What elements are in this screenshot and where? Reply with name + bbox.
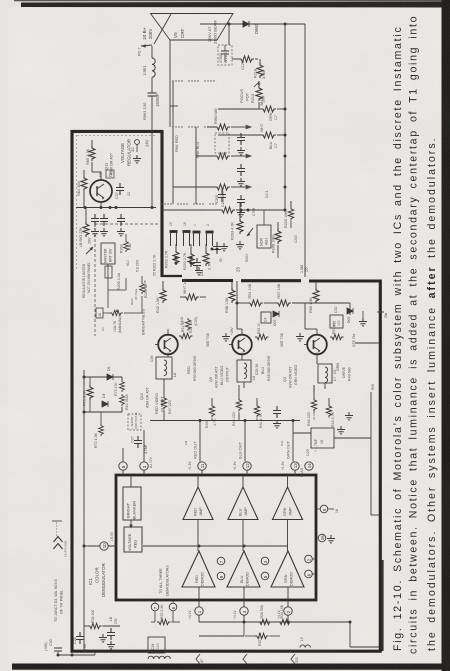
wire pin23 to BLU (237, 303, 242, 329)
tick on rail (377, 312, 388, 318)
T1 winding bar 1 (170, 232, 178, 247)
pin 6 below circle (169, 600, 177, 611)
pin 14 BIAS (300, 462, 313, 477)
resistor R50 680 drive (182, 337, 184, 339)
wire row2 right (350, 303, 363, 318)
CRT neck tick (170, 105, 178, 107)
node reg bus 5 (151, 206, 154, 209)
node left col b (83, 411, 86, 414)
video bus wire (150, 420, 300, 422)
node reg bus 1 (84, 206, 87, 209)
dotted leader (52, 521, 62, 536)
CRT grid dotted row 2 (172, 126, 214, 127)
wire PNK RED vertical (172, 81, 174, 204)
node t1 d (190, 262, 193, 265)
capacitor C961 (148, 93, 157, 131)
capacitor C28 (68, 632, 87, 653)
coil L961 (152, 58, 155, 77)
node left col a (83, 376, 86, 379)
ground drive 1 (222, 333, 230, 341)
ground c28 (99, 634, 107, 642)
wire BLU amp out (242, 520, 244, 552)
box C31 (261, 312, 271, 323)
pin 2 circle demod (305, 555, 316, 563)
capacitor mid (273, 406, 281, 428)
grid row R960 (207, 108, 245, 130)
wire right rail drop (371, 392, 379, 515)
transistor stubs BLU (229, 303, 242, 345)
focus pot arrow (254, 82, 261, 87)
resistor R51 10K (168, 321, 193, 339)
wire branch bottom (84, 411, 122, 413)
wire PNK BLU vertical (195, 127, 197, 156)
label 47000 WVDC (219, 52, 228, 63)
right scan bar (442, 0, 450, 671)
bottom scan bar (12, 664, 450, 670)
resistor R44 4.7K (254, 398, 263, 428)
T1 winding bar 2 (183, 232, 191, 247)
wire r57 right (292, 302, 350, 304)
coil box L8 (156, 353, 177, 385)
wire RED demod out (198, 587, 200, 600)
cap pair 3 (237, 195, 245, 217)
wire GRN amp out (287, 520, 289, 552)
CRT anode wire (200, 23, 243, 25)
capacitor reg 2 (100, 214, 108, 236)
node kine bottom b (247, 209, 250, 212)
pin 11 stub (201, 470, 203, 475)
CRT grid dotted row 1 (172, 80, 214, 81)
node kine top (284, 23, 287, 26)
resistor R203 4.7K (231, 213, 244, 240)
T1 pin labels (169, 222, 210, 226)
wire r38 row (84, 610, 120, 629)
resistor R218 3.9M (254, 59, 267, 79)
transistor Q11 circle (90, 180, 112, 202)
resistor R202 2.7K a (165, 244, 180, 268)
transistor stubs RED (155, 329, 168, 345)
pin 1 bottom circle (195, 600, 203, 622)
capacitor C27 (131, 436, 149, 454)
top thin scan line (14, 0, 450, 1)
diode D81 box (106, 170, 114, 178)
node reg bus 3 (109, 206, 112, 209)
coil box L7 (317, 353, 337, 389)
wire RED amp out (197, 520, 199, 552)
resistor R219 3K (140, 276, 148, 298)
kine row bottom (162, 207, 285, 213)
caps C201 (193, 258, 204, 276)
node row4 right (284, 186, 287, 189)
capacitor reg 3 (117, 214, 125, 236)
grid row wire G2 (218, 108, 261, 110)
resistor R60 1.5K (309, 281, 319, 313)
resistor R57 10K (276, 283, 291, 306)
resistor R45 220 (232, 385, 242, 426)
pin 15 right edge (316, 534, 335, 543)
node luma a (198, 545, 201, 548)
labels Q9 column (209, 366, 230, 388)
resistor R64 15K (76, 170, 87, 196)
grid row wire blu (218, 134, 261, 136)
CRT neck left (169, 40, 171, 127)
node t1 e (211, 248, 214, 251)
wire blanker input (130, 475, 132, 487)
pin 3 circle demod (261, 557, 269, 565)
wire focus row (258, 102, 260, 109)
module boundary left edge (70, 130, 73, 653)
resistor R49 680 (330, 323, 344, 340)
node t1 c (190, 257, 193, 260)
node t1 a (175, 257, 178, 260)
diode D960 (243, 21, 249, 27)
amplifier RED AMP triangle (183, 487, 213, 520)
wire c28 bottom (83, 626, 85, 651)
connector chevron c (291, 654, 299, 664)
box MASTER SWITCH (101, 243, 115, 264)
wire grn out drop (313, 385, 315, 392)
coil bottom left (148, 656, 170, 659)
pin 13 circle (291, 462, 299, 470)
amplifier BLU AMP triangle (228, 487, 258, 520)
instamatic dashed boundary vertical (94, 224, 96, 336)
pin 11 circle (198, 462, 206, 470)
wire GRN OUT (292, 421, 294, 462)
node anode junction (228, 23, 231, 26)
wire pin23 row (237, 302, 248, 304)
pin 10 circle (100, 542, 108, 550)
instamatic wires (108, 264, 142, 313)
wire branch top (84, 376, 122, 378)
node demod row b (287, 621, 290, 624)
node video bus blu (244, 419, 247, 422)
resistor R43 4.7K (326, 398, 335, 427)
resistor R48 680 (255, 323, 269, 340)
chroma wires (240, 203, 291, 258)
wire grn collector to rail (355, 342, 380, 344)
wire RED amp in (197, 475, 199, 487)
cap pair 2 (237, 164, 245, 186)
wire BLU amp in (242, 475, 244, 487)
resistor R41 (180, 278, 206, 300)
demodulator RED DEMOD triangle (182, 551, 215, 587)
dashed short-here box (128, 414, 141, 430)
node video bus grn (292, 419, 295, 422)
labels C100 C33 (180, 317, 198, 326)
resistor R54 10K (248, 283, 263, 306)
resistor R42 1.5K (156, 281, 166, 313)
grid row 2 wire (196, 153, 245, 159)
top scan bar (21, 2, 450, 8)
capacitor near t1 (213, 242, 228, 254)
IC1 color demodulator box (116, 475, 316, 600)
demodulator GRN DEMOD triangle (271, 551, 304, 587)
module boundary upper-right vertical (160, 130, 163, 277)
box NOR ADJ (257, 225, 271, 248)
ground chroma 1 (236, 241, 244, 249)
labels GRN drive (336, 362, 346, 378)
wire r54 r57 (264, 302, 276, 304)
connector chevron a (196, 654, 204, 664)
T1 winding bar 4 (206, 232, 214, 246)
terminal 10 (130, 140, 139, 152)
transistor Q9 BLU video circle (232, 335, 252, 355)
wire anode to pin26 (249, 24, 305, 277)
box C34 100 (148, 637, 165, 653)
pin 7 below circle (151, 600, 159, 611)
grid row arrow 2 (245, 154, 251, 158)
label SHORT HERE (130, 412, 138, 429)
diode D6 (107, 367, 113, 380)
wire B+ down (151, 46, 153, 58)
wire R64 to bus (83, 191, 85, 208)
wire RED OUT (199, 421, 201, 462)
resistor R46 4.7K (205, 398, 217, 428)
ground t1 (195, 267, 203, 275)
resistor R46 220 (307, 385, 317, 426)
node pin10 corner (83, 545, 86, 548)
pin 2 bottom circle (284, 600, 292, 622)
resistor R47 220 (161, 385, 172, 420)
node row5 right (284, 209, 287, 212)
wire right drop (350, 622, 379, 647)
grid row arrow 1 (245, 125, 251, 129)
resistor R65 3.3K (85, 140, 95, 168)
labels RED drive (187, 355, 197, 381)
wire pin10 left drop (84, 546, 88, 626)
node kine bottom a (240, 209, 243, 212)
pin drop 23 (236, 281, 238, 303)
wire bottom exit (57, 651, 96, 657)
labels BLU drive (261, 355, 271, 381)
resistor R36 100 (185, 318, 193, 333)
module boundary right edge (379, 280, 382, 653)
resistor R63 27K (79, 208, 92, 248)
pot brightness (103, 309, 132, 316)
pin 10 wire (88, 545, 116, 547)
pin 3 wire up (143, 430, 145, 462)
pin 9 right edge (316, 505, 339, 513)
box C29 (306, 428, 334, 456)
coil L5 (300, 637, 310, 647)
transistor Q3 GRN video circle (307, 335, 327, 355)
resistor 2.7K c (203, 244, 212, 270)
luma bus wire 2 (199, 545, 288, 547)
resistor R72 1.5K (94, 412, 103, 448)
box R55 100 (330, 315, 343, 328)
node reg bus 2 (100, 206, 103, 209)
resistor R35 430 (245, 633, 280, 646)
node video bus red (199, 419, 202, 422)
resistor R28 908 (258, 605, 272, 624)
pin 5 circle demod (261, 572, 269, 580)
wire BLU demod out (243, 587, 245, 600)
ground near terminal (133, 155, 141, 163)
node row1 right (284, 108, 287, 111)
demodulator BLU DEMOD triangle (227, 551, 260, 587)
resistor R203 P1K (120, 234, 133, 253)
module boundary mid horizontal (IC2 bottom) (182, 279, 379, 283)
wire BLU OUT (244, 421, 246, 462)
wire 24V feed inside box (151, 131, 153, 208)
resistor R38 1.5K (225, 281, 235, 313)
node demod row c (349, 621, 352, 624)
labels Q3 column (283, 365, 298, 388)
B+ arrow to PG7 (141, 44, 152, 48)
regulator box dotted inner border (76, 135, 155, 269)
module boundary jog (162, 275, 182, 277)
coil box L6 (237, 353, 256, 388)
focus pot R213 (239, 81, 266, 103)
pin 12 stub (246, 470, 248, 475)
box 16 (96, 308, 103, 318)
arrow out of regulator (86, 247, 93, 254)
transistor Q5 RED video circle (158, 335, 178, 355)
wire Q11 emitter to bus (100, 202, 102, 208)
ground drive 2 (296, 333, 304, 341)
cap pair 1 (237, 133, 245, 155)
resistor R208 10M (272, 222, 282, 253)
spark gap dashed box lower (215, 133, 229, 153)
resistor R33 2.2K (151, 604, 180, 625)
wire demod row 2 (199, 622, 244, 636)
node t1 f (216, 248, 219, 251)
node luma b (243, 545, 246, 548)
pin 6 circle demod (305, 570, 316, 578)
box bright range (105, 266, 112, 278)
resistor R71 5.1K real (83, 377, 94, 412)
CRT envelope (151, 14, 234, 41)
caps C200 (215, 190, 226, 203)
box BRIGHT BLANKER (123, 487, 141, 520)
regulator bus wire (76, 207, 156, 209)
resistor R212 WHT (260, 97, 285, 121)
resistor R200 2.7K b (183, 244, 194, 270)
wire c29 to rail (334, 437, 371, 439)
T1 winding bar 3 (193, 232, 201, 246)
resistor R40 (120, 394, 125, 412)
wire pnk blu extend (195, 156, 197, 204)
wire grn to c29 (293, 432, 311, 434)
wire anode drop (228, 24, 230, 45)
right edge lower thickening (381, 560, 383, 651)
arrow blanker to reg (129, 520, 133, 529)
resistor R73 47K (114, 377, 124, 396)
capacitor C37 (115, 183, 131, 199)
diode D05 b (347, 308, 353, 323)
capacitor C12B upper (221, 45, 229, 62)
pin 4 bottom circle (240, 600, 248, 622)
luma bus wire (143, 545, 199, 547)
box VOLTAGE REG (124, 527, 142, 552)
transistor stubs GRN (304, 303, 317, 345)
node demod row a (243, 621, 246, 624)
wire demod out row (199, 621, 350, 623)
transistor Q11 internals (97, 184, 104, 200)
wire coil to cap (151, 77, 153, 93)
wire kine return vertical (284, 24, 286, 210)
node row2 right (284, 134, 287, 137)
resistor R71 5.1K (84, 377, 88, 385)
amplifier GRN AMP triangle (273, 487, 303, 520)
node reg bus 4 (115, 206, 118, 209)
chroma arrow (247, 228, 253, 236)
pin 3 circle (140, 462, 148, 475)
pin 8 circle demod (217, 572, 225, 580)
ground video right (345, 412, 353, 420)
node row3 right (284, 155, 287, 158)
resistor R220 10K (284, 201, 294, 228)
wire GRN demod out (287, 587, 289, 600)
spark gap dashed box upper (218, 45, 232, 65)
ground c29 (337, 426, 345, 434)
CRT base line (170, 39, 217, 41)
pin 13 stub (294, 470, 296, 475)
ground discrete right (359, 318, 367, 326)
resistor RC12B (260, 123, 285, 149)
pin 12 circle (243, 462, 251, 470)
grid row 3 wire (173, 184, 245, 190)
chevrons to junct (54, 537, 63, 550)
module boundary bottom edge (71, 650, 382, 653)
module boundary top edge (71, 130, 163, 133)
CRT grid dotted row 3 (161, 203, 216, 204)
capacitor near r38 (107, 628, 115, 649)
wire left column main (83, 370, 85, 546)
label LB 20V (109, 616, 118, 624)
node t1 b (175, 262, 178, 265)
B+ feed diagonal wire (154, 14, 171, 44)
pin 7 circle demod (217, 557, 225, 565)
grid row arrow 3 (245, 185, 251, 189)
connector chevron b (243, 654, 247, 664)
node r54 left (236, 302, 239, 305)
capacitor reg 1 (91, 214, 99, 236)
resistor R34 10K (278, 604, 292, 624)
diode D05 a (273, 311, 279, 326)
resistor R12B horizontal (232, 56, 258, 62)
pin 8 circle (119, 448, 127, 475)
instamatic dashed boundary horizontal (95, 223, 160, 225)
capacitor C30 (44, 639, 62, 651)
wire R65 to Q11 (92, 168, 101, 181)
diode D4 (102, 394, 108, 407)
wire GRN amp in (287, 475, 289, 487)
